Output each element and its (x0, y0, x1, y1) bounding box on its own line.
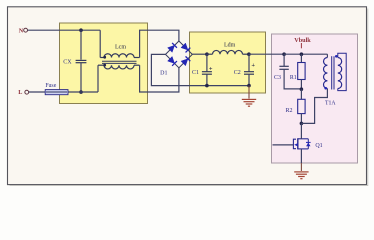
transistor Q1 substrate arrow (294, 143, 298, 146)
bridge rectifier D1 outline (166, 41, 193, 68)
node C3 junction (282, 52, 286, 56)
transformer T1A secondary leads (338, 53, 346, 90)
capacitor C2 (244, 71, 254, 73)
svg-text:L: L (18, 89, 22, 96)
node C1 bottom junction (205, 84, 209, 88)
Lcm top winding polarity dot (103, 56, 106, 59)
bridge diode bottom-left (168, 57, 175, 64)
wire Vbulk rail in pink box (284, 53, 327, 55)
inductor Lcm bottom winding (104, 65, 134, 69)
svg-text:Ldm: Ldm (224, 42, 236, 48)
capacitor C3 top lead (283, 54, 285, 66)
inductor Ldm (213, 50, 243, 54)
bridge diode bottom-right (181, 59, 188, 66)
wire Lcm bottom-right pin to bridge (140, 65, 179, 92)
wire bridge negative to ground rail (151, 54, 249, 85)
svg-text:+: + (209, 66, 213, 73)
capacitor CX (76, 59, 87, 61)
node R1 top junction (300, 52, 304, 56)
node CX top junction (79, 28, 83, 32)
svg-text:Q1: Q1 (315, 143, 322, 149)
schematic sheet frame (8, 7, 367, 185)
ground symbol 1 (242, 98, 256, 100)
wire Lcm bottom-left pin (97, 65, 99, 92)
wire Ldm to pink box (249, 53, 284, 55)
page background (0, 0, 374, 192)
wire N to Lcm (28, 29, 101, 31)
resistor R2 (300, 89, 302, 99)
transformer T1A primary winding (324, 58, 328, 89)
terminal N pin circle (24, 28, 28, 32)
bridge diode top-right (181, 43, 188, 50)
transformer T1A primary polarity dot (324, 87, 327, 90)
ground symbol 2 (294, 171, 308, 173)
transistor Q1 gate bar (293, 139, 296, 149)
wire primary bottom to drain node (301, 89, 327, 124)
svg-text:C2: C2 (234, 70, 241, 76)
svg-text:CX: CX (63, 59, 72, 65)
resistor R1 (300, 54, 302, 62)
svg-text:N: N (19, 27, 24, 34)
svg-text:Vbulk: Vbulk (294, 37, 311, 44)
wire Lcm top-left pin (99, 30, 101, 57)
EMI filter block (yellow box 1) (60, 23, 148, 104)
wire ground 1 lead (248, 86, 250, 99)
wire bridge positive to Ldm (192, 53, 207, 55)
transistor Q1 body diode (307, 139, 309, 149)
transistor Q1 source lead (298, 148, 309, 150)
node C2 top junction (247, 52, 251, 56)
wire CX top lead (80, 30, 82, 60)
inductor Lcm core lines (102, 60, 137, 62)
capacitor C2 top lead (248, 54, 250, 71)
node C2 bottom junction (247, 84, 251, 88)
svg-text:+: + (251, 62, 255, 69)
node CX bottom junction (79, 90, 83, 94)
transformer T1A secondary polarity dot (335, 55, 338, 58)
svg-text:Lcm: Lcm (115, 45, 126, 51)
transistor Q1 channel bar (297, 138, 299, 149)
capacitor C1 top lead (206, 54, 208, 71)
svg-text:R1: R1 (290, 75, 297, 81)
transformer T1A secondary winding (338, 58, 342, 89)
bridge diode top-left (168, 45, 175, 52)
node drain junction (300, 122, 304, 126)
transistor Q1 gate wire (273, 144, 294, 146)
inductor Lcm top winding (104, 54, 134, 58)
capacitor C1 (202, 71, 212, 73)
Lcm bottom winding polarity dot (103, 64, 106, 67)
transformer T1A primary top lead (326, 54, 328, 57)
wire Lcm top-right pin to bridge (140, 30, 179, 57)
transformer T1A core (331, 56, 333, 89)
wire L to fuse and Lcm (29, 91, 98, 93)
svg-text:C3: C3 (274, 75, 281, 81)
node R1-R2-C3 junction (300, 87, 304, 91)
svg-text:R2: R2 (285, 108, 292, 114)
node C1 top junction (205, 52, 209, 56)
capacitor C3 (279, 65, 288, 67)
fuse Fuse body (45, 90, 68, 95)
svg-text:D1: D1 (160, 71, 167, 77)
transistor Q1 drain lead (298, 138, 309, 140)
converter block (pink box) (272, 34, 358, 163)
wire ground 2 lead (300, 163, 302, 171)
DC filter block (yellow box 2) (190, 32, 266, 93)
svg-text:Fuse: Fuse (45, 83, 56, 89)
svg-text:C1: C1 (192, 70, 199, 76)
svg-text:T1A: T1A (325, 100, 336, 106)
terminal L pin circle (25, 90, 29, 94)
